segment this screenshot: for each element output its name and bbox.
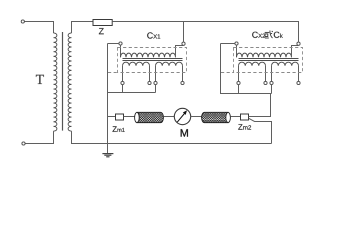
wire: Zm2 to Cx2 branch (up) xyxy=(249,94,271,117)
wire Cx1 secondary lead 3 xyxy=(155,66,157,82)
wire: Cx1 ground-side down-lead (to Zm1 and earth) xyxy=(107,44,109,154)
wire Cx1 secondary lead 4 xyxy=(182,66,184,82)
wire: junction to Zm1 xyxy=(108,116,116,118)
wire Cx2 secondary lead 1 xyxy=(238,66,240,82)
node Cx1 secondary terminal 1 xyxy=(121,81,124,84)
Cx1 secondary winding 2 xyxy=(156,62,183,66)
wire Cx2 terminal to measuring bus xyxy=(271,85,273,94)
wire Cx1 terminal to measuring bus xyxy=(155,85,157,93)
Cx1 primary winding xyxy=(121,53,176,57)
node Cx2 secondary terminal 4 xyxy=(297,81,300,84)
wire: secondary bottom to grounded bottom bus xyxy=(72,131,272,143)
label Ck xyxy=(274,32,283,38)
measuring impedance Zm2 xyxy=(241,114,249,120)
ground xyxy=(102,154,113,157)
resistor Z (protective impedance) xyxy=(93,20,112,26)
Cx2 secondary winding 1 xyxy=(239,62,266,66)
shielded cable 1 (hatched) xyxy=(121,112,174,123)
wire Cx2 secondary lead 2 xyxy=(265,66,267,82)
label M xyxy=(181,129,188,136)
node Cx1 HV terminal B (top-right) xyxy=(182,42,185,45)
wire Cx2 terminal to measuring bus xyxy=(238,85,240,94)
wire Cx1 terminal B to HV rail xyxy=(183,22,185,43)
Cx2 core xyxy=(239,58,299,60)
node Cx2 secondary terminal 1 xyxy=(237,81,240,84)
dashed shield tie of Cx1 xyxy=(108,72,118,74)
transformer T primary winding xyxy=(54,33,57,131)
wire: cable 2 to Zm2 xyxy=(230,116,240,118)
terminal top-left xyxy=(21,20,24,23)
wire Cx2 primary right lead xyxy=(292,46,299,58)
Cx2 secondary winding 2 xyxy=(272,62,299,66)
dashed shield tie of Cx2 xyxy=(221,72,234,74)
node Cx2 HV terminal A (top-left) xyxy=(235,42,238,45)
transformer T core xyxy=(62,32,64,131)
wire Cx2 secondary lead 3 xyxy=(271,66,273,82)
measuring bus of Cx1 xyxy=(108,92,156,94)
measuring impedance Zm1 xyxy=(116,114,124,120)
wire Cx2 secondary lead 4 xyxy=(298,66,300,82)
wire Cx1 secondary lead 2 xyxy=(149,66,151,82)
wire: top HV rail from Z to Cx2 drop xyxy=(112,22,298,43)
shielded cable 2 (hatched) xyxy=(188,112,240,123)
label Cx2 xyxy=(252,32,265,38)
Cx1 core xyxy=(123,58,183,60)
wire Cx1 top-left terminal to ground-side lead xyxy=(108,43,119,45)
wire Cx1 secondary lead 1 xyxy=(122,66,124,82)
node Cx1 secondary terminal 3 xyxy=(154,81,157,84)
wire Cx1 terminal to measuring bus xyxy=(122,85,124,93)
node Cx1 secondary terminal 4 xyxy=(181,81,184,84)
node Cx2 secondary terminal 3 xyxy=(270,81,273,84)
wire Cx1 primary left lead xyxy=(120,45,122,57)
node Cx1 secondary terminal 2 xyxy=(148,81,151,84)
wire: Zm2 to ground bus (down) xyxy=(249,118,272,143)
wire Cx2 primary left lead xyxy=(236,45,238,57)
wire: primary bottom to left-bottom terminal xyxy=(25,131,53,143)
node Cx2 HV terminal B (top-right) xyxy=(297,42,300,45)
galvanometer M xyxy=(174,108,190,124)
wire Cx2 top-left terminal to ground-side lead xyxy=(221,43,235,45)
wire Cx1 primary right lead xyxy=(176,46,184,58)
transformer T secondary winding xyxy=(68,33,71,131)
wire: cable 1 to galvanometer M xyxy=(163,116,174,118)
label Cx1 xyxy=(147,32,160,38)
wire: Cx2 bus down to measuring branch xyxy=(270,94,272,117)
measuring bus of Cx2 xyxy=(221,44,272,94)
label Z xyxy=(99,28,104,34)
node Cx2 secondary terminal 2 xyxy=(264,81,267,84)
wire: input terminal to transformer primary top xyxy=(24,22,53,34)
wire: M to cable 2 xyxy=(191,116,202,118)
node Cx1 HV terminal A (top-left) xyxy=(119,42,122,45)
Cx1 secondary winding 1 xyxy=(123,62,150,66)
wire: Zm1 to cable 1 xyxy=(124,116,139,118)
terminal bottom-left xyxy=(22,142,25,145)
label Zm2 xyxy=(238,124,251,129)
label T xyxy=(36,75,44,84)
CJK char: [or] hand-drawn xyxy=(265,31,273,39)
wire Cx2 terminal B to HV rail xyxy=(298,22,300,43)
label Zm1 xyxy=(113,126,125,131)
Cx2 primary winding xyxy=(237,53,292,57)
shield boundary of Cx2 (dashed) xyxy=(234,48,303,73)
wire: secondary top to protective impedance Z xyxy=(72,22,94,34)
shield boundary of Cx1 (dashed) xyxy=(118,48,187,73)
